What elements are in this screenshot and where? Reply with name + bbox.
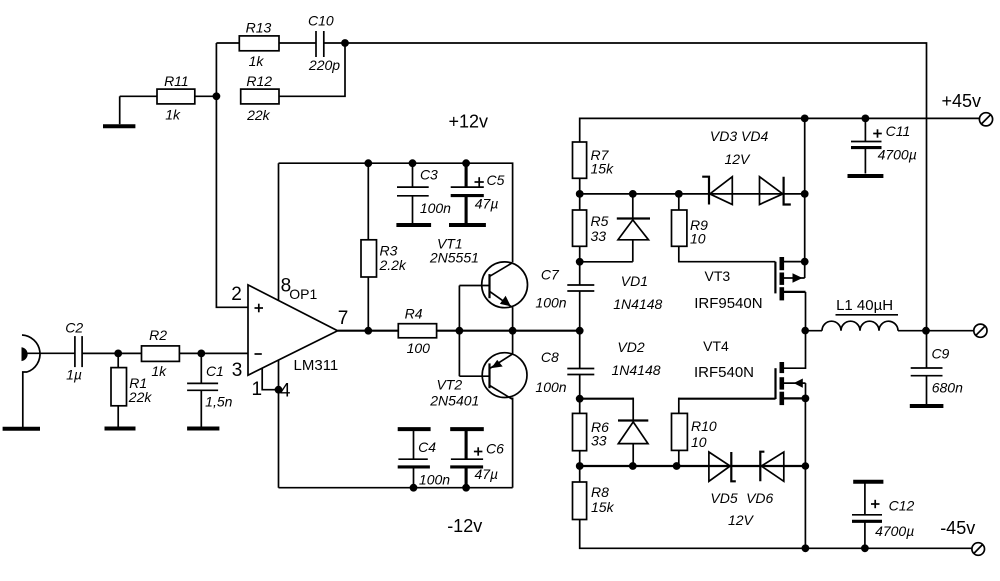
ground (C6) xyxy=(450,427,484,431)
svg-text:C2: C2 xyxy=(65,319,83,335)
svg-text:+12v: +12v xyxy=(449,112,489,132)
capacitor C8 xyxy=(535,331,594,399)
wire base drive vertical xyxy=(458,286,460,377)
wire -45v bottom rail xyxy=(580,520,972,549)
svg-text:15k: 15k xyxy=(591,161,615,177)
svg-text:VT3: VT3 xyxy=(705,268,731,284)
svg-text:IRF9540N: IRF9540N xyxy=(694,295,762,312)
svg-text:R10: R10 xyxy=(691,418,717,434)
transistor VT3 IRF9540N xyxy=(694,257,805,331)
svg-text:VT2: VT2 xyxy=(436,377,462,393)
ground (C9) xyxy=(910,404,944,408)
resistor R8 xyxy=(573,466,615,520)
svg-text:2: 2 xyxy=(231,284,242,305)
svg-text:VD6: VD6 xyxy=(746,490,773,506)
svg-text:2N5551: 2N5551 xyxy=(429,249,479,265)
node VT4 source/zener xyxy=(802,462,810,470)
transistor VT1 2N5551 xyxy=(429,236,528,331)
wire +45 rail to VT3 xyxy=(804,118,806,278)
svg-text:2.2k: 2.2k xyxy=(378,257,406,273)
node pin1/pin4 junction xyxy=(275,386,283,394)
svg-text:1: 1 xyxy=(252,379,263,400)
svg-text:220p: 220p xyxy=(308,57,340,73)
capacitor C9 xyxy=(911,331,963,405)
svg-text:1k: 1k xyxy=(249,53,265,69)
wire +12v rail xyxy=(279,163,513,262)
svg-text:C10: C10 xyxy=(308,13,334,29)
capacitor C10 xyxy=(308,13,345,74)
svg-text:R13: R13 xyxy=(246,19,272,35)
node R7 bottom xyxy=(576,190,584,198)
svg-text:C7: C7 xyxy=(541,267,560,283)
terminal -45v xyxy=(972,543,985,556)
capacitor C3 xyxy=(397,163,451,223)
svg-text:LM311: LM311 xyxy=(294,357,339,374)
wire R12 right to feedback node xyxy=(279,43,345,96)
svg-text:1N4148: 1N4148 xyxy=(613,296,662,312)
svg-text:2N5401: 2N5401 xyxy=(429,392,479,408)
node L1/C9/feedback xyxy=(922,327,930,335)
wire +45v top rail xyxy=(580,118,980,142)
wire lower gate line xyxy=(580,465,806,467)
svg-text:VD3 VD4: VD3 VD4 xyxy=(710,128,769,144)
svg-text:47µ: 47µ xyxy=(474,466,498,482)
diode VD2 1N4148 xyxy=(611,339,660,466)
node VD1 top xyxy=(629,190,637,198)
node A junction xyxy=(213,92,221,100)
svg-text:15k: 15k xyxy=(591,499,615,515)
node VT3 source/+45 xyxy=(801,258,809,266)
ground (C4) xyxy=(398,427,431,431)
node R9 top xyxy=(675,190,683,198)
zener VD5 xyxy=(709,452,736,481)
resistor R7 xyxy=(573,142,615,194)
svg-text:1µ: 1µ xyxy=(66,366,82,382)
capacitor C7 xyxy=(535,262,594,331)
resistor R11 xyxy=(120,73,217,122)
node output/R3 junction xyxy=(364,327,372,335)
capacitor C5 xyxy=(451,163,505,223)
wire node A vertical to op-amp + input xyxy=(216,43,248,307)
svg-text:C1: C1 xyxy=(206,363,224,379)
wire output to terminal xyxy=(927,330,974,332)
svg-text:1k: 1k xyxy=(165,106,181,122)
svg-text:100n: 100n xyxy=(535,295,566,311)
capacitor C4 xyxy=(398,429,451,488)
ground (C12) xyxy=(853,480,883,484)
transistor VT4 IRF540N xyxy=(694,331,806,549)
capacitor C1 xyxy=(187,353,233,426)
svg-text:C8: C8 xyxy=(541,349,559,365)
terminal output xyxy=(974,324,987,337)
inductor L1 xyxy=(805,297,926,331)
svg-text:4700µ: 4700µ xyxy=(878,147,917,163)
zener VD6 xyxy=(760,452,784,482)
wire upper gate line xyxy=(580,193,805,195)
input connector jack xyxy=(22,335,75,372)
wire pin 1 xyxy=(262,368,278,390)
wire pin 8 to +12v rail xyxy=(278,163,280,301)
svg-text:1k: 1k xyxy=(151,363,167,379)
svg-text:VD1: VD1 xyxy=(621,273,648,289)
wire -12v rail xyxy=(279,487,513,489)
svg-text:12V: 12V xyxy=(728,512,755,528)
node +45/VT3 rail xyxy=(801,115,809,123)
node rail/VT4 source xyxy=(802,544,810,552)
node VT4 source xyxy=(802,395,810,403)
svg-text:L1 40µH: L1 40µH xyxy=(836,297,893,314)
svg-text:1N4148: 1N4148 xyxy=(611,362,660,378)
node C6 bottom xyxy=(462,484,470,492)
ground (C11) xyxy=(848,174,884,178)
svg-text:C11: C11 xyxy=(886,123,911,139)
resistor R10 xyxy=(672,398,776,466)
wire feedback top rail xyxy=(345,43,927,331)
resistor R1 xyxy=(111,353,152,426)
svg-text:22k: 22k xyxy=(128,389,153,405)
svg-text:C3: C3 xyxy=(420,167,438,183)
svg-text:100: 100 xyxy=(407,340,431,356)
ground (R11) xyxy=(103,96,135,126)
svg-text:C4: C4 xyxy=(418,439,436,455)
svg-text:OP1: OP1 xyxy=(289,286,317,302)
node rail/C12 xyxy=(861,544,869,552)
transistor VT2 2N5401 xyxy=(429,331,527,488)
resistor R4 xyxy=(398,306,436,356)
terminal +45v xyxy=(979,113,992,126)
node VD2 bottom xyxy=(629,462,637,470)
svg-text:C6: C6 xyxy=(486,441,504,457)
svg-text:1,5n: 1,5n xyxy=(205,394,232,410)
node C2/R1 junction xyxy=(114,350,122,358)
svg-text:22k: 22k xyxy=(246,107,271,123)
wire pin 4 to -12v rail xyxy=(278,360,280,488)
node output junction xyxy=(801,327,809,335)
node R2/C1 junction xyxy=(197,350,205,358)
resistor R5 xyxy=(573,194,609,262)
capacitor C12 xyxy=(852,482,915,549)
node R5/C7 junction xyxy=(576,258,584,266)
node zener/+45 rail xyxy=(801,190,809,198)
resistor R6 xyxy=(573,399,610,466)
svg-text:C9: C9 xyxy=(931,346,949,362)
svg-text:C5: C5 xyxy=(487,172,505,188)
node C5 top xyxy=(462,159,470,167)
svg-text:10: 10 xyxy=(690,231,706,247)
svg-text:+45v: +45v xyxy=(942,91,982,111)
svg-text:VD2: VD2 xyxy=(617,339,644,355)
node R10 bottom xyxy=(673,462,681,470)
capacitor C2 xyxy=(65,319,141,382)
svg-text:-45v: -45v xyxy=(940,518,975,538)
capacitor C11 xyxy=(851,118,917,173)
svg-text:VT4: VT4 xyxy=(703,338,729,354)
capacitor C6 xyxy=(450,429,504,488)
op-amp U1 LM311 xyxy=(231,276,348,402)
wire R5/VD1 bottom link xyxy=(580,261,633,263)
svg-text:7: 7 xyxy=(338,308,349,329)
svg-text:47µ: 47µ xyxy=(475,196,499,212)
ground (C3) xyxy=(396,223,431,227)
zener VD4 xyxy=(760,177,791,205)
svg-text:C12: C12 xyxy=(889,498,915,514)
node C4 bottom xyxy=(410,484,418,492)
ground (C5) xyxy=(449,223,486,227)
svg-text:10: 10 xyxy=(691,434,707,450)
svg-text:100n: 100n xyxy=(535,379,566,395)
node R6/R8 junction xyxy=(576,462,584,470)
svg-text:R2: R2 xyxy=(149,327,167,343)
node C8/VD2 junction xyxy=(576,395,584,403)
svg-text:33: 33 xyxy=(591,228,607,244)
wire C8 to VD2 xyxy=(580,398,634,400)
node +45/C11 xyxy=(862,115,870,123)
svg-text:R5: R5 xyxy=(591,213,609,229)
svg-text:680n: 680n xyxy=(932,379,963,395)
svg-text:12V: 12V xyxy=(724,151,751,167)
ground (R1) xyxy=(105,427,136,431)
svg-text:100n: 100n xyxy=(419,471,450,487)
zener VD3 xyxy=(702,177,732,205)
svg-text:R11: R11 xyxy=(164,73,189,89)
svg-text:R8: R8 xyxy=(591,484,609,500)
resistor R12 xyxy=(241,73,279,123)
node feedback top junction xyxy=(341,39,349,47)
resistor R9 xyxy=(672,194,776,262)
resistor R13 xyxy=(216,19,316,69)
resistor R3 xyxy=(361,163,407,331)
svg-text:IRF540N: IRF540N xyxy=(694,364,754,381)
wire op-amp output line xyxy=(338,330,580,332)
node base drive junction xyxy=(456,327,464,335)
svg-text:33: 33 xyxy=(591,433,607,449)
svg-text:VD5: VD5 xyxy=(710,490,737,506)
svg-text:R4: R4 xyxy=(405,306,423,322)
ground (C1) xyxy=(187,427,219,431)
svg-text:R12: R12 xyxy=(246,73,272,89)
ground (input) xyxy=(3,372,40,429)
node C3 top xyxy=(409,159,417,167)
node R3 top xyxy=(364,159,372,167)
diode VD1 1N4148 xyxy=(613,194,662,312)
svg-text:4700µ: 4700µ xyxy=(875,523,914,539)
node C7/C8 output junction xyxy=(576,327,584,335)
svg-text:100n: 100n xyxy=(420,200,451,216)
svg-text:3: 3 xyxy=(232,360,243,381)
node emitter junction xyxy=(509,327,517,335)
svg-text:-12v: -12v xyxy=(447,516,482,536)
resistor R2 xyxy=(142,327,249,379)
